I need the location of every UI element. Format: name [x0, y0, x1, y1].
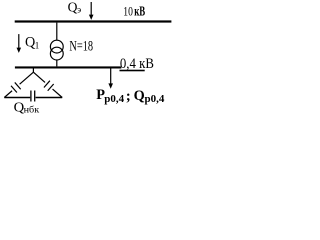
svg-text:э: э — [77, 5, 81, 15]
svg-text:нбк: нбк — [24, 105, 40, 115]
svg-text:р0,4: р0,4 — [145, 93, 165, 105]
svg-text:Q: Q — [134, 88, 145, 104]
svg-text:кВ: кВ — [134, 5, 145, 19]
svg-text:;: ; — [126, 88, 131, 104]
svg-text:N=18: N=18 — [69, 38, 93, 54]
svg-text:1: 1 — [35, 41, 40, 51]
svg-text:0,4 кВ: 0,4 кВ — [120, 55, 154, 71]
svg-text:Q: Q — [68, 0, 78, 14]
svg-text:10: 10 — [123, 5, 133, 19]
svg-text:р0,4: р0,4 — [104, 93, 124, 105]
svg-text:Q: Q — [25, 35, 35, 51]
